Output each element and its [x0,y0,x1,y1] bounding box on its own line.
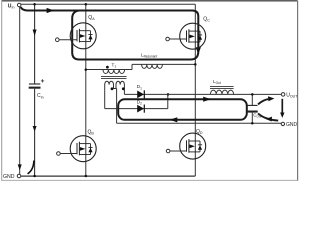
terminal GND left [17,174,21,178]
transformer T1 secondary joining piece [114,88,117,90]
gate lead Q_B [60,153,77,155]
terminal GND right [281,122,284,125]
diode D1 [137,91,144,99]
svg-text:UIn: UIn [8,4,15,10]
arrow on racetrack bottom (left) [170,117,178,122]
bold primary current loop [21,7,199,60]
transformer T1 polarity dot secondary 1 [111,87,114,90]
bold arrow to U_OUT [258,99,268,104]
arrow on bold right segment (down) [196,47,201,54]
capacitor C_OUT [247,105,258,112]
bold secondary current loop (racetrack) [118,99,247,120]
junction dot C_OUT top [251,93,254,96]
transistor Q_C [180,23,206,49]
wire: jog up to resonant inductor level [131,64,133,69]
svg-text:GND: GND [3,174,15,180]
capacitor C_IN branch wire upper [34,4,36,83]
arrow on C_IN branch upper (down) [33,30,37,37]
junction dot left leg midpoint [85,68,88,71]
arrow on C_IN branch lower (down) [33,126,37,132]
wire: center tap down [116,89,118,124]
terminal U_OUT [281,93,285,97]
junction dot C_OUT bottom [251,122,254,125]
junction dot D1/D2 cathodes [167,93,170,96]
inductor L_Resonant [142,64,163,68]
junction dot top rail / left leg [85,3,88,6]
wire: left leg midpoint to transformer primary [86,69,132,71]
svg-text:QA: QA [88,15,95,21]
bold curve at bottom of C_IN branch [28,161,34,174]
svg-text:D2: D2 [137,100,142,106]
wire: left source line U_in to GND [19,7,21,174]
svg-text:T1: T1 [112,62,117,68]
transformer T1 polarity dot secondary 2 [122,87,125,90]
wire: right bridge leg [194,4,196,176]
transistor Q_D [180,133,206,159]
junction dot top rail / C_IN [33,3,36,6]
svg-text:QB: QB [88,130,95,136]
bold arrow from GND return [258,113,278,120]
inductor L_Out [210,90,233,94]
transformer T1 secondary winding 2 [116,81,124,94]
wire: D2 cathode up to output rail [167,94,169,108]
gate lead Q_D [170,150,187,152]
inductor L_Out core [210,86,234,88]
capacitor C_OUT upper wire [251,94,253,105]
wire: D2 anode line [105,108,168,110]
transistor Q_B [70,136,96,162]
wire: top input rail [21,3,195,5]
svg-text:CIn: CIn [37,93,44,99]
frame border [2,1,298,181]
capacitor C_IN branch wire lower [34,89,36,176]
junction dot bottom rail / left leg [85,175,88,178]
svg-text:LOut: LOut [213,79,221,85]
wire: bottom rail [21,175,195,177]
svg-text:GND: GND [286,122,298,128]
junction dot right leg midpoint [194,63,197,66]
transformer T1 polarity dot primary [106,66,109,69]
wire: left bridge leg [85,4,87,176]
svg-text:D1: D1 [137,84,142,90]
arrow on bold top segment (right) [47,8,55,13]
wire: resonant inductor line to right leg [132,63,195,65]
gate lead Q_A [59,39,77,41]
arrow on racetrack top (right) [203,97,211,102]
junction dot bottom rail / C_IN [33,175,36,178]
wire: W1 left end down to D2 level [104,90,106,108]
svg-text:QC: QC [203,16,210,22]
arrow on source line (down) [18,164,22,170]
bold load arrow (down) between output terminals [281,99,283,113]
capacitor C_OUT lower wire [251,113,253,124]
svg-text:UOUT: UOUT [286,92,298,98]
capacitor C_IN [29,79,44,88]
terminal U_in [17,3,21,7]
svg-text:QD: QD [196,129,203,135]
transformer T1 primary winding [103,70,125,74]
transistor Q_A [70,23,96,49]
svg-text:LResonant: LResonant [141,53,157,59]
diode D2 [137,105,144,113]
transformer T1 secondary winding 1 [105,81,114,90]
transformer T1 core [101,76,127,78]
wire: secondary ground rail [117,122,282,124]
wire: output positive rail [124,93,281,95]
gate lead Q_C [169,38,186,40]
